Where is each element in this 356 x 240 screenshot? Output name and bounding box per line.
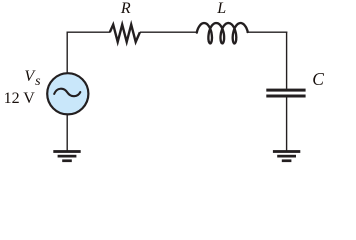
- label Vs: [24, 69, 40, 85]
- wire source bottom to ground: [66, 114, 68, 150]
- wire right vertical (corner to capacitor): [286, 32, 288, 89]
- wire capacitor to ground: [286, 97, 288, 150]
- inductor L: [197, 23, 248, 43]
- label R: [121, 1, 131, 17]
- wire left vertical (node to source top): [66, 32, 68, 74]
- ac voltage source Vs circle: [47, 73, 88, 114]
- capacitor C plates: [266, 89, 305, 98]
- wire top-left horizontal: [67, 31, 111, 33]
- label L: [217, 1, 226, 17]
- wire between resistor and inductor: [140, 31, 197, 33]
- label C: [312, 71, 324, 89]
- resistor R: [110, 25, 140, 42]
- ground (left): [53, 150, 80, 162]
- wire inductor to top-right corner: [247, 31, 288, 33]
- sine symbol inside source: [54, 89, 80, 96]
- label 12 V: [4, 91, 35, 107]
- ground (right): [273, 150, 300, 162]
